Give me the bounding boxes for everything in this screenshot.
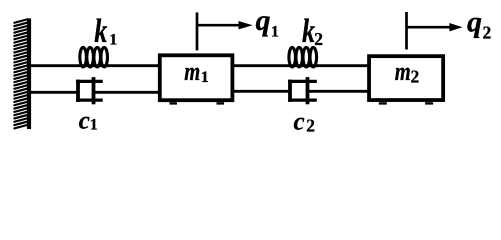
svg-text:m: m	[395, 57, 411, 86]
svg-text:2: 2	[483, 23, 492, 43]
wire top-middle rail (m1 to m2 through spring k2)	[233, 64, 369, 67]
wire bottom-left rail (wall to damper c1)	[29, 91, 78, 94]
svg-text:1: 1	[201, 69, 209, 86]
damper c2 cylinder	[288, 80, 317, 102]
wall hatching	[14, 19, 29, 129]
wire c2 piston rod to m2	[308, 90, 370, 93]
svg-text:q: q	[256, 4, 271, 37]
coordinate q1 arrow	[197, 24, 240, 27]
svg-text:2: 2	[306, 116, 315, 136]
svg-text:c: c	[294, 109, 305, 136]
svg-text:1: 1	[109, 32, 117, 49]
svg-text:c: c	[79, 107, 90, 134]
mass m2 foot right	[425, 102, 433, 104]
wall line	[27, 19, 31, 130]
mass m1 foot left	[170, 102, 178, 104]
wire bottom-middle rail (m1 to damper c2)	[233, 90, 290, 93]
coordinate q2 arrow	[407, 26, 451, 29]
damper c2 piston	[306, 77, 310, 104]
coordinate q2 reference line	[405, 12, 408, 50]
svg-text:q: q	[467, 6, 482, 39]
damper c1 cylinder	[76, 80, 103, 102]
wire c1 piston rod to m1	[94, 91, 160, 94]
svg-text:2: 2	[314, 29, 323, 49]
wire top-left rail (wall to m1 through spring k1)	[29, 64, 159, 67]
mass m2	[369, 56, 443, 100]
svg-text:2: 2	[411, 67, 420, 87]
svg-text:k: k	[302, 13, 315, 50]
svg-text:k: k	[94, 13, 107, 50]
svg-text:m: m	[184, 57, 200, 86]
spring k2	[289, 47, 317, 66]
damper c1 piston	[92, 77, 96, 104]
mass m1	[160, 55, 233, 100]
mass m2 foot left	[379, 102, 387, 104]
svg-text:1: 1	[271, 24, 279, 41]
coordinate q1 reference line	[196, 12, 199, 50]
svg-text:1: 1	[90, 117, 98, 134]
spring k1	[80, 47, 108, 66]
mass m1 foot right	[217, 102, 225, 104]
